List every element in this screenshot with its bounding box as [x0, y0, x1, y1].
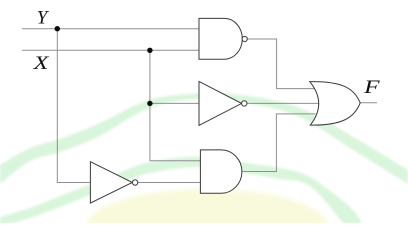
- wire: vertical from Y junction down to bottom inverter: [57, 29, 91, 183]
- junction dot middle branch: [147, 101, 152, 106]
- wire: input Y horizontal rail: [22, 28, 199, 30]
- junction dot on Y rail: [55, 26, 60, 31]
- wire: AND output up to OR bottom input: [242, 114, 316, 172]
- wire: bottom inverter output to AND bottom input: [138, 182, 201, 184]
- wire: NAND output to OR top input: [247, 39, 316, 89]
- wire: middle inverter output to OR middle input: [247, 102, 319, 104]
- decorative yellow blob bottom: [86, 189, 328, 240]
- nand gate U1: [199, 18, 242, 59]
- wire: input X horizontal rail: [22, 49, 199, 51]
- inverter U2 (middle): [199, 81, 242, 125]
- or gate U5: [310, 82, 361, 126]
- wire: middle branch to inverter input: [150, 102, 200, 104]
- and gate U3: [200, 150, 242, 193]
- nand gate U1 output bubble: [242, 36, 247, 41]
- inverter U4 output bubble: [132, 180, 137, 185]
- decorative green swoosh band (upper): [0, 93, 408, 184]
- inverter U4 (bottom): [90, 162, 132, 203]
- wire: OR output F: [360, 102, 377, 104]
- svg-text:X: X: [32, 53, 50, 74]
- wire: vertical from X junction down to AND gate top input: [150, 50, 201, 161]
- junction dot on X rail: [147, 48, 152, 53]
- inverter U2 output bubble: [242, 101, 247, 106]
- decorative green swoosh band (lower): [0, 157, 362, 226]
- svg-text:F: F: [363, 77, 380, 98]
